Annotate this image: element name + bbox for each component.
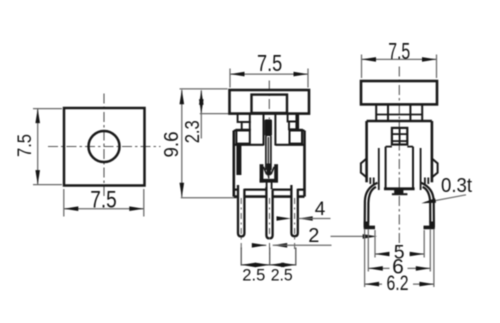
side view: key cap rectangle <box>361 81 437 104</box>
left view: actuator circle <box>89 131 120 162</box>
side view: base thick line <box>384 187 415 190</box>
bottom dims: extension lines right <box>433 230 435 288</box>
dimension 7.5 (top of front view): dimension line <box>230 73 308 75</box>
side view: body right wall <box>431 121 434 182</box>
svg-text:0.3t: 0.3t <box>441 175 472 197</box>
front view: black side bar (left inside body) <box>236 145 241 176</box>
dimension 6.2: dimension line and arrowheads <box>365 283 382 285</box>
front view: pin centerlines (dash-dot, drawn over pins) <box>240 198 242 252</box>
side view: neck middle rung <box>376 114 422 116</box>
dimension 2.3: extension line at cap bottom <box>200 113 230 115</box>
side view: vertical centerline <box>398 67 400 250</box>
svg-text:7.5: 7.5 <box>388 38 410 64</box>
svg-text:2.5: 2.5 <box>242 265 265 284</box>
side view: body top edge <box>367 120 432 123</box>
dimension 2.3 (cap height): dimension line <box>200 90 202 138</box>
dimension 4 (right pin): left arrowhead <box>277 216 292 221</box>
side view: black bottom tab <box>394 190 403 194</box>
svg-text:2: 2 <box>308 225 319 247</box>
side view: neck verticals <box>375 104 377 121</box>
dimension 5: dimension line and arrowheads <box>375 253 389 255</box>
left view: switch body square outline <box>64 108 145 186</box>
side view: left foot <box>364 222 375 230</box>
side view: plunger grid box <box>392 128 407 145</box>
side view: right leg inner curve <box>423 187 431 222</box>
svg-text:2.5: 2.5 <box>271 265 293 284</box>
front view: key cap inner rectangle (button top) <box>252 95 288 113</box>
dimension 7.5 (top of side view): dimension line <box>362 58 437 60</box>
arrow pointing at left leg (PCB level indicator) <box>331 235 366 237</box>
front view: plunger shaft lines <box>265 136 267 170</box>
left view: vertical centerline <box>103 94 105 198</box>
side view: right side tab <box>432 159 438 178</box>
front view: right latch boxes under cap <box>288 114 297 122</box>
bottom dims: extension lines left <box>364 230 366 288</box>
side view: left side tab <box>361 159 367 178</box>
front view: plunger guide walls <box>263 114 265 146</box>
front view: contact crown center dark column <box>267 164 271 176</box>
side view: right leg outer curve <box>421 183 434 228</box>
dimension 7.5 (left side of top view): dimension line <box>37 109 39 185</box>
dimension 6: dimension line and arrowheads <box>368 267 389 269</box>
left view: horizontal centerline <box>48 146 161 148</box>
side view: left leg outer curve <box>365 183 378 228</box>
dimension 9.6 (overall height): extension lines <box>180 88 228 90</box>
svg-text:7.5: 7.5 <box>257 50 282 76</box>
dimension 2.5/2.5: dimension line <box>241 264 296 266</box>
front view: contact crown right wall <box>274 164 278 182</box>
svg-text:4: 4 <box>315 199 326 220</box>
side view: right leg top piece <box>424 178 426 185</box>
svg-text:7.5: 7.5 <box>90 186 117 213</box>
front view: body bottom line <box>234 195 305 198</box>
front view: right pin body <box>291 185 297 236</box>
front view: body shoulders <box>234 130 250 132</box>
svg-text:7.5: 7.5 <box>15 134 36 157</box>
side view: body left wall <box>365 121 368 182</box>
dimension 7.5 (bottom of top view): dimension line <box>64 208 144 210</box>
front view: body inner top edges <box>234 144 264 146</box>
side view: lower base line <box>392 193 408 195</box>
front view: contact crown bottom band <box>260 179 278 183</box>
svg-text:9.6: 9.6 <box>161 132 183 158</box>
dimension 9.6: dimension line <box>181 90 183 198</box>
dimension 2 (center pin): line and arrowheads <box>254 244 267 246</box>
dimension 7.5 (top of front view): extension lines <box>229 69 231 88</box>
front view: center pin body <box>266 187 272 238</box>
front view: left latch boxes under cap <box>238 114 250 122</box>
front view: body inner bottom line <box>234 189 305 191</box>
dimension 7.5 (top of side view): extension lines <box>361 55 363 79</box>
side view: plunger flange steps <box>386 146 392 148</box>
label 0.3t leader line and arrowhead <box>425 195 467 203</box>
front view: body left wall <box>233 131 236 197</box>
front view: vertical centerline through cap <box>268 81 270 120</box>
side view: right foot <box>424 222 435 230</box>
front view: left pin body <box>238 185 244 236</box>
front view: key cap outer rectangle <box>230 90 310 114</box>
svg-text:6.2: 6.2 <box>387 272 409 295</box>
dimension 7.5 (bottom of top view): extension lines <box>63 189 65 217</box>
front view: center pin stub above bottom <box>266 183 268 191</box>
front view: contact crown left wall <box>260 164 264 182</box>
side view: left leg top piece <box>369 178 371 185</box>
front view: black plunger <box>265 119 272 136</box>
dimension 4: right arrowhead and tail <box>298 216 313 221</box>
front view: crown notch lines <box>263 167 266 175</box>
svg-text:2.3: 2.3 <box>182 120 204 143</box>
side view: inner walls <box>378 148 380 190</box>
front view: body right wall <box>303 131 306 197</box>
dimension 2.5/2.5 (pin pitch): extension brackets <box>240 248 242 266</box>
dimension 7.5 (left side of top view): extension lines <box>33 108 62 110</box>
side view: left leg inner curve <box>368 187 376 222</box>
